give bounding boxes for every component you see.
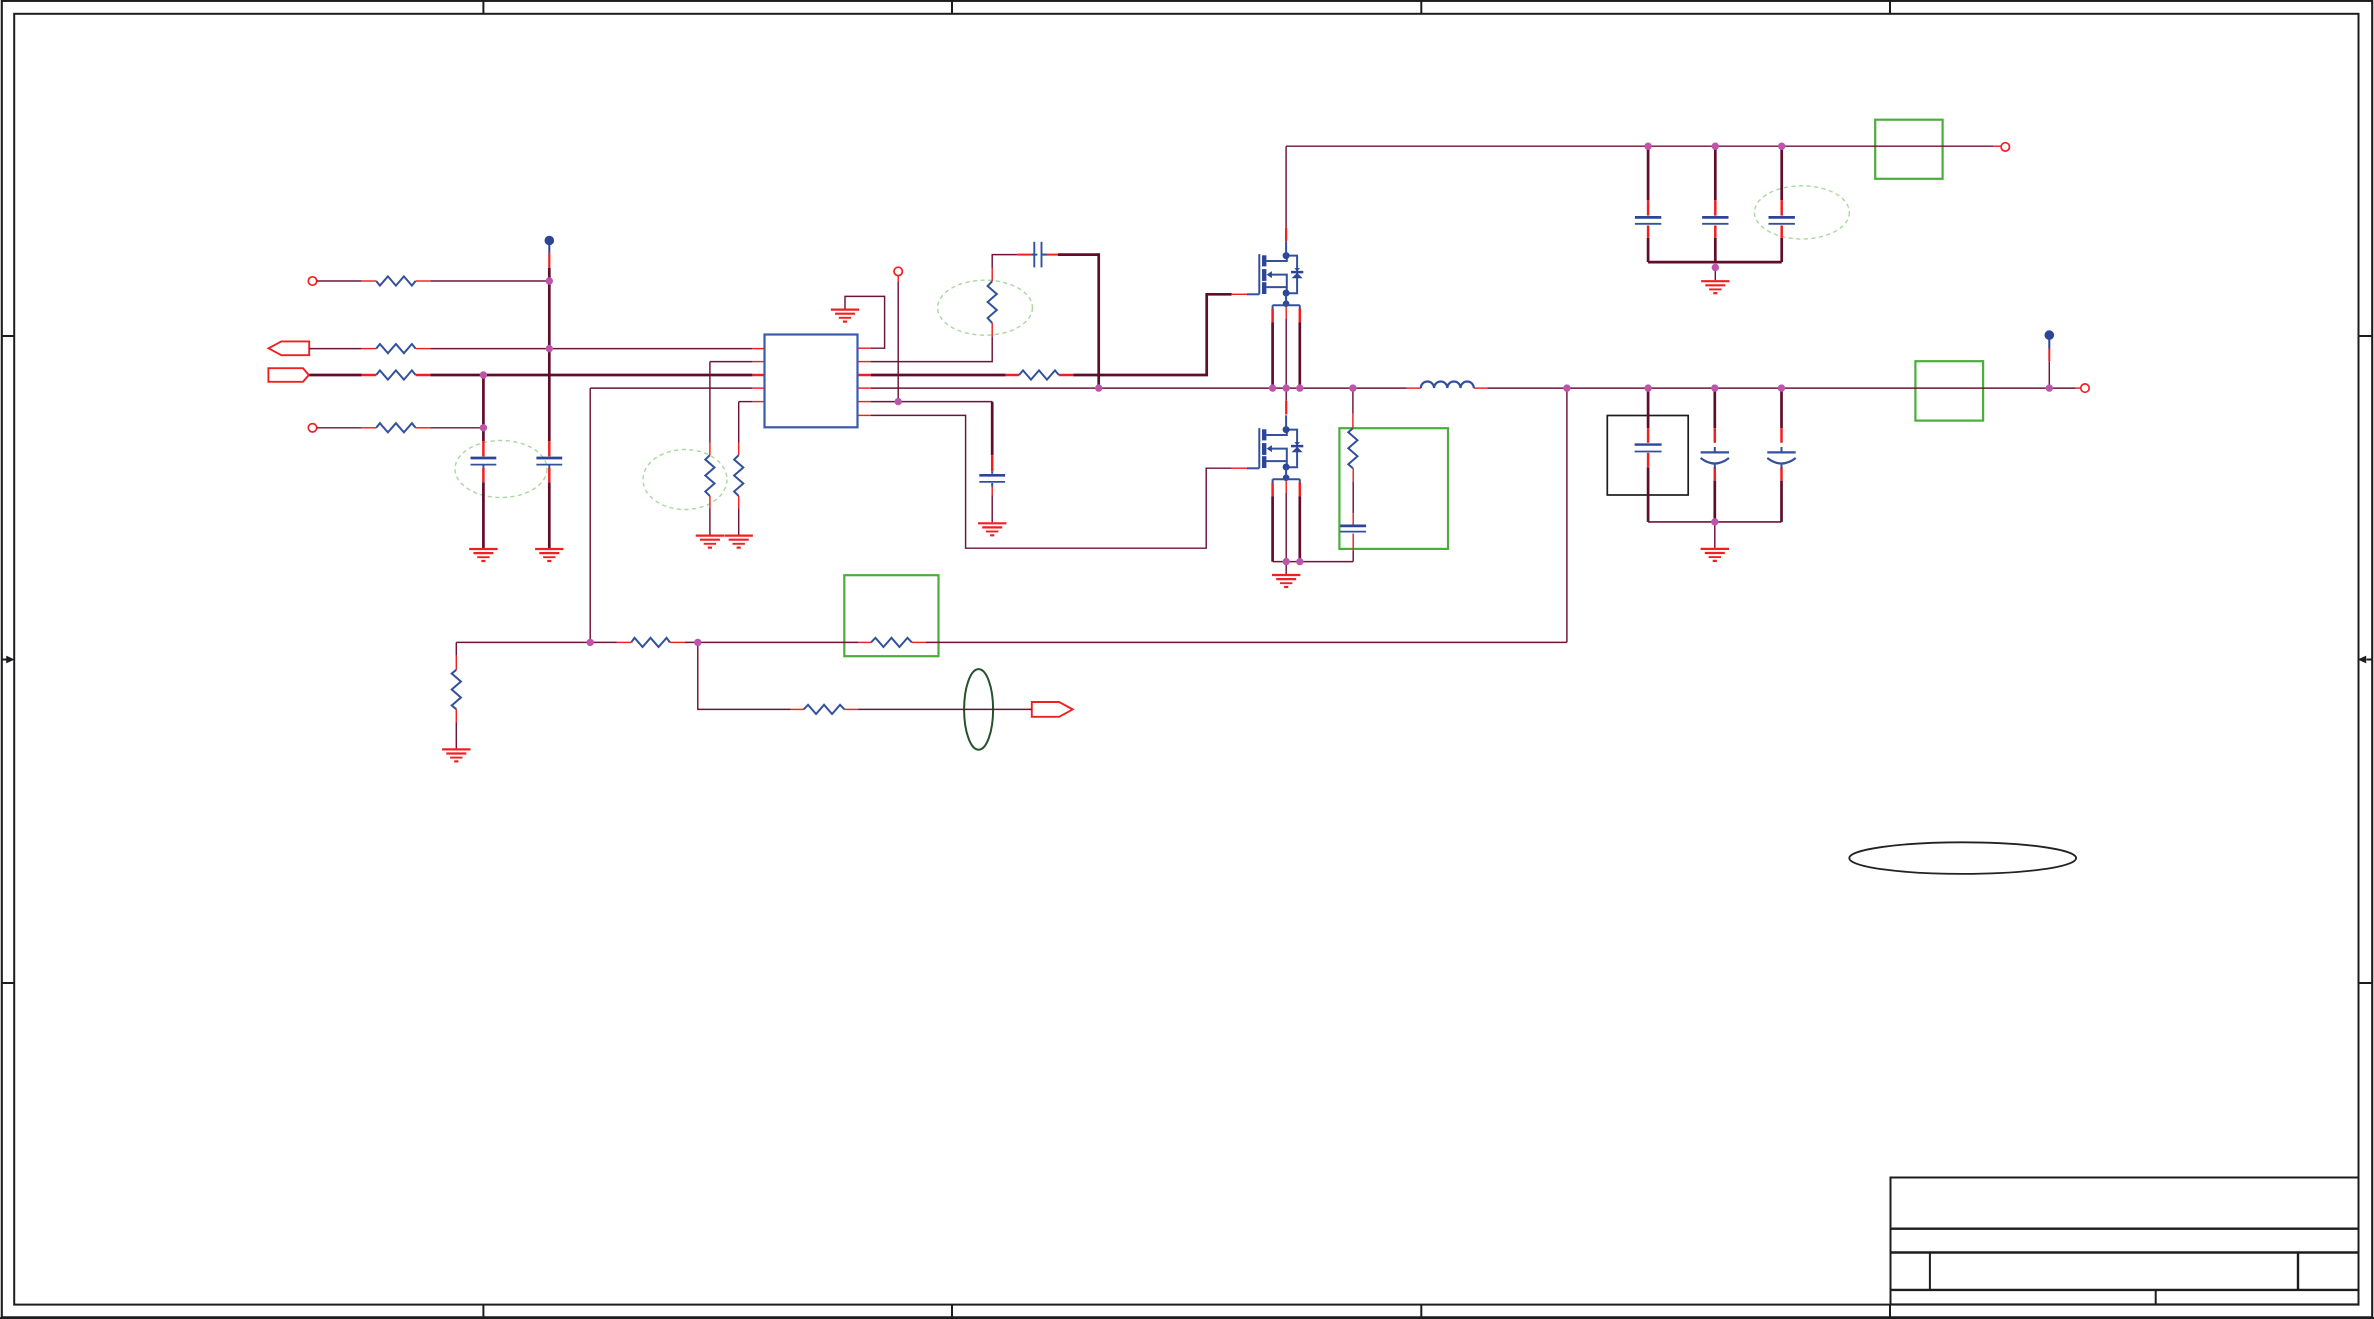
junction VOUT C10: [1711, 384, 1718, 391]
pin stub C2 top: [548, 441, 551, 456]
inductor L1: [1421, 381, 1474, 388]
wire Q2 source leg left: [1271, 497, 1274, 562]
wire U1 pin5 to C4: [871, 401, 992, 403]
pin stub Q2 gate: [1232, 467, 1247, 469]
wire R6 bottom lead: [738, 508, 740, 534]
zone tick right 2: [2359, 982, 2373, 984]
wire C2 lower lead: [548, 482, 551, 548]
zone tick left 1: [2, 335, 14, 337]
stub VOUT port: [2076, 387, 2081, 389]
junction VIN C7: [1712, 143, 1719, 150]
resistor R12 gate: [1019, 370, 1059, 379]
capacitor C6: [1635, 216, 1661, 219]
pin stub U1 R3: [858, 374, 872, 377]
pin stub Q2 drain: [1285, 401, 1287, 415]
ground C4: [978, 522, 1006, 524]
junction SW b: [1283, 384, 1290, 391]
pin stub R4 left: [362, 427, 376, 429]
junction feedback a: [587, 639, 594, 646]
pin stub C6 top: [1647, 200, 1650, 216]
pin stub snubber R top: [1352, 414, 1354, 429]
wire input cap ground rail: [1648, 261, 1782, 264]
pin stub comp R top: [991, 268, 993, 281]
wire SW rail left: [1099, 387, 1407, 389]
wire row3 R3 to U1 pin3: [430, 374, 752, 377]
wire snubber bottom lead: [1352, 551, 1354, 562]
ground U1 top: [831, 309, 859, 311]
wire bootstrap vertical: [1097, 253, 1100, 388]
wire U1 pin1 ground loop: [845, 296, 885, 348]
pin stub C8 top: [1780, 200, 1783, 216]
pin stub C7 top: [1714, 200, 1717, 216]
capacitor C3 bootstrap: [1033, 242, 1035, 268]
pin stub Q2 src left: [1271, 483, 1274, 497]
pin stub C11 top: [1780, 428, 1783, 443]
title block line 3: [1891, 1289, 2359, 1291]
wire C9 top lead: [1647, 388, 1650, 428]
pin stub U1 R5: [858, 401, 872, 403]
pin stub R10 left: [791, 708, 804, 710]
pin stub R2 left: [362, 348, 376, 350]
junction enable pin5: [895, 398, 902, 405]
resistor R10: [804, 705, 845, 714]
wire R10 to port: [858, 708, 1032, 710]
pin stub C1 top: [482, 441, 485, 456]
junction trunk row1: [546, 277, 553, 284]
wire R6 to U1 pin5: [739, 401, 753, 403]
capacitor C9: [1635, 443, 1662, 445]
stub VIN port: [1993, 145, 2001, 147]
wire Q1 source leg right: [1298, 323, 1301, 389]
wire C11 bottom lead: [1780, 481, 1783, 522]
resistor R8 feedback: [871, 638, 912, 647]
wire U1 pin3 to gate R: [871, 374, 1006, 377]
transistor Q2: [1258, 428, 1260, 468]
pin stub R4 right: [416, 427, 431, 429]
power flag VOUT: [2045, 330, 2055, 340]
wire R9 bottom lead: [455, 722, 457, 748]
junction bootstrap SW: [1095, 384, 1102, 391]
highlight ellipse pulldown resistors: [643, 450, 727, 510]
resistor R1: [376, 276, 415, 285]
ground power stage: [1272, 574, 1300, 576]
ground R5: [696, 534, 724, 536]
wire C6 bottom lead: [1647, 238, 1650, 262]
capacitor C2: [536, 457, 562, 460]
pin stub R3 right: [416, 374, 431, 377]
pin stub C4 bottom: [991, 487, 993, 496]
wire snubber mid lead: [1352, 482, 1354, 513]
junction VIN C6: [1644, 143, 1651, 150]
junction SW snubber: [1349, 384, 1356, 391]
capacitor C10 polarized: [1701, 451, 1729, 453]
highlight box snubber network: [1339, 428, 1448, 549]
pin stub Q1 src left: [1271, 309, 1274, 323]
wire row2 port to R2: [309, 348, 362, 350]
pin stub R10 right: [845, 708, 859, 710]
wire output cap ground rail: [1648, 521, 1781, 523]
wire C4 bottom lead: [991, 496, 993, 523]
wire sense drop vertical: [1566, 388, 1568, 642]
capacitor C5 snubber: [1340, 525, 1366, 528]
pin stub U1 R1: [858, 347, 872, 349]
pin stub C8 bottom: [1780, 226, 1783, 238]
zone tick top 1: [482, 1, 484, 14]
pin stub Q1 drain: [1285, 228, 1287, 242]
pin stub Q1 gate: [1232, 293, 1247, 295]
wire row4 R4 to node: [430, 427, 483, 429]
pin stub R5 top: [709, 443, 711, 455]
wire snubber top lead: [1352, 388, 1354, 414]
resistor R5: [705, 455, 714, 496]
transistor Q1: [1258, 254, 1260, 294]
wire U1 pin2 to comp R: [871, 336, 992, 361]
port arrow left row2: [269, 341, 310, 355]
pin stub C9 top: [1647, 428, 1650, 443]
resistor R3: [376, 370, 415, 379]
wire row1 R1 to trunk: [430, 280, 549, 282]
wire feedback main: [456, 641, 616, 643]
wire feedback R8 to sense: [926, 641, 1567, 643]
IC U1 converter: [765, 335, 858, 428]
pin stub enable port: [897, 276, 899, 282]
zone tick bottom 4: [1889, 1305, 1891, 1318]
port P5 circle VOUT: [2081, 384, 2089, 392]
wire C11 top lead: [1780, 388, 1783, 428]
pin stub R1 right: [416, 280, 431, 282]
wire R5 top lead: [709, 362, 711, 443]
highlight ellipse sense node: [964, 669, 993, 750]
wire C1 lower lead: [482, 482, 485, 548]
pin stub L1 right: [1474, 387, 1488, 389]
wire row2 R2 to U1 pin1: [430, 348, 752, 350]
zone tick top 3: [1420, 1, 1422, 14]
pin stub U1 R4: [858, 387, 872, 389]
port P2 circle row4: [308, 424, 316, 432]
resistor R2: [376, 344, 415, 353]
pin stub C9 bottom: [1647, 453, 1650, 468]
title block outline: [1891, 1178, 2359, 1305]
junction row3 node: [480, 371, 487, 378]
resistor R13 snubber: [1348, 428, 1357, 468]
pin stub R8 left: [859, 641, 871, 643]
wire C3 to bootstrap corner: [1058, 253, 1099, 256]
port P1 circle row1: [308, 277, 316, 285]
pin stub C6 bottom: [1647, 226, 1650, 238]
wire Q1 source leg left: [1271, 323, 1274, 389]
wire Q2 ground stem: [1285, 562, 1287, 574]
power flag VIN: [545, 236, 555, 246]
pin stub R6 top: [738, 443, 740, 455]
pin stub C1 bottom: [482, 468, 485, 482]
wire R5 to U1 pin2: [710, 361, 753, 363]
pin stub C4 top: [991, 455, 994, 471]
pin stub snubber R bottom: [1352, 468, 1354, 481]
pin stub R7 left: [617, 641, 632, 643]
wire C7 top lead: [1714, 146, 1717, 200]
wire row4 port to R4: [317, 427, 362, 429]
pin stub C10 top: [1714, 428, 1717, 443]
zone tick bottom 1: [482, 1305, 484, 1318]
junction input gnd: [1712, 264, 1719, 271]
port arrow feedback out: [1032, 702, 1073, 717]
wire enable port vertical: [897, 282, 899, 402]
wire Q1 source mid: [1285, 319, 1287, 388]
wire C8 bottom lead: [1780, 238, 1783, 262]
wire comp R to C3: [992, 255, 1017, 268]
resistor R4: [376, 423, 415, 432]
zone tick top 2: [951, 1, 953, 14]
output cap black box: [1607, 416, 1688, 496]
pin stub U1 L1: [752, 348, 764, 350]
pin stub R8 right: [912, 641, 926, 643]
pin stub Q1 src mid: [1285, 307, 1287, 320]
junction pwr gnd a: [1283, 558, 1290, 565]
wire feedback left drop: [455, 642, 457, 655]
junction VOUT C9: [1644, 384, 1651, 391]
zone tick bottom 2: [951, 1305, 953, 1318]
capacitor C7: [1702, 216, 1728, 219]
pin stub C11 bottom: [1780, 467, 1783, 481]
ground C1: [469, 548, 497, 550]
wire C4 top lead: [991, 402, 994, 456]
highlight ellipse input cap C8: [1754, 186, 1849, 239]
title block divider b: [2297, 1253, 2299, 1290]
pin stub snubber C bottom: [1352, 534, 1354, 551]
junction SW c: [1296, 384, 1303, 391]
wire input ground stem: [1714, 268, 1716, 281]
highlight ellipse comp resistor: [938, 280, 1033, 335]
highlight box feedback resistor R8: [844, 575, 938, 656]
wire feedback R7 to R8: [685, 641, 859, 643]
resistor R7: [631, 638, 670, 647]
wire U1 pin4 left: [590, 387, 752, 389]
junction row4 node: [480, 424, 487, 431]
highlight ellipse input caps: [455, 441, 547, 498]
pin stub C2 bottom: [548, 468, 551, 482]
wire U1 pin4 to SW: [871, 387, 1099, 389]
highlight box VIN connector: [1875, 120, 1942, 179]
highlight box VOUT connector: [1915, 361, 1983, 420]
pin stub comp R bottom: [991, 323, 993, 336]
pin stub R3 left: [362, 374, 376, 377]
sheet bottom edge bar: [0, 1317, 2374, 1319]
junction trunk row2: [546, 345, 553, 352]
port P4 circle VIN: [2001, 143, 2009, 151]
pin stub U1 L2: [752, 361, 764, 363]
junction VOUT flag: [2046, 384, 2053, 391]
wire C9 bottom lead: [1647, 467, 1650, 522]
wire C7 bottom lead: [1714, 238, 1717, 262]
pin stub snubber C top: [1352, 513, 1354, 525]
zone tick top 4: [1889, 1, 1891, 14]
wire feedback drop vertical: [589, 388, 591, 642]
wire U1 pin6 to Q2 gate: [871, 415, 1232, 548]
pin stub gate R left: [1006, 374, 1019, 377]
note ellipse: [1849, 842, 2076, 874]
title block line 1: [1891, 1227, 2359, 1229]
pin stub C10 bottom: [1714, 467, 1717, 481]
title block line 2: [1891, 1251, 2359, 1253]
wire row3 port to R3: [309, 374, 361, 377]
pin stub R6 bottom: [738, 496, 740, 508]
centre arrow left edge: [2, 659, 8, 661]
port P3 circle enable: [894, 267, 902, 275]
wire C8 top lead: [1780, 146, 1783, 200]
wire Q1 drain vertical: [1285, 146, 1287, 228]
capacitor C1: [471, 457, 497, 460]
title block divider c: [2155, 1290, 2157, 1305]
pin stub R9 bottom: [455, 709, 457, 722]
wire row1 port to R1: [317, 280, 362, 282]
junction pwr gnd b: [1296, 558, 1303, 565]
junction output gnd: [1711, 518, 1718, 525]
zone tick right 1: [2359, 335, 2373, 337]
port arrow right row3: [268, 368, 308, 382]
wire VOUT rail: [1487, 387, 2075, 389]
wire VIN rail: [1286, 145, 1993, 147]
pin stub Q1 src right: [1299, 309, 1302, 323]
wire R5 bottom lead: [709, 508, 711, 534]
pin stub C3 left: [1017, 254, 1033, 256]
junction VOUT C11: [1778, 384, 1785, 391]
ground output caps: [1701, 548, 1729, 550]
pin stub U1 L3: [752, 374, 764, 377]
pin stub Q2 src mid: [1285, 481, 1287, 494]
pin stub Q2 src right: [1299, 483, 1302, 497]
junction SW a: [1269, 384, 1276, 391]
pin stub R5 bottom: [709, 496, 711, 508]
wire Q2 source mid: [1285, 493, 1287, 562]
wire C10 bottom lead: [1713, 481, 1716, 522]
ground R9: [442, 748, 470, 750]
pin stub U1 L4: [752, 387, 764, 389]
wire Q2 drain: [1285, 388, 1287, 401]
pin stub L1 left: [1407, 387, 1421, 389]
pin stub R9 top: [455, 656, 457, 670]
ground C2: [535, 548, 563, 550]
junction feedback b: [694, 639, 701, 646]
pin stub U1 R6: [858, 414, 872, 416]
wire output ground stem: [1714, 522, 1716, 548]
pin stub U1 L5: [752, 401, 764, 403]
resistor R9: [452, 670, 461, 709]
capacitor C4: [979, 474, 1005, 477]
pin stub R2 right: [416, 348, 431, 350]
wire node to C1 vertical: [482, 375, 485, 441]
resistor R11 comp: [988, 281, 997, 323]
wire R6 top lead: [738, 402, 740, 443]
pin stub C3 right: [1043, 254, 1058, 256]
pin stub gate R right: [1059, 374, 1073, 377]
junction VIN C8: [1778, 143, 1785, 150]
capacitor C8: [1769, 216, 1795, 219]
title block divider a: [1929, 1253, 1931, 1290]
resistor R6: [734, 455, 743, 496]
wire power ground rail: [1273, 561, 1354, 563]
capacitor C11 polarized: [1767, 451, 1795, 453]
wire Q2 source leg right: [1298, 497, 1301, 562]
wire C10 top lead: [1713, 388, 1716, 428]
pin stub R1 left: [362, 280, 376, 282]
zone tick bottom 3: [1420, 1305, 1422, 1318]
wire feedback lower branch: [698, 642, 791, 709]
pin stub U1 R2: [858, 361, 872, 363]
wire C6 top lead: [1647, 146, 1650, 200]
zone tick left 2: [2, 982, 14, 984]
centre arrow right edge: [2367, 659, 2373, 661]
ground input caps: [1701, 280, 1729, 282]
wire gate R to Q1 gate: [1073, 294, 1231, 375]
ground R6: [725, 534, 753, 536]
junction VOUT sense: [1563, 384, 1570, 391]
pin stub C7 bottom: [1714, 226, 1717, 238]
pin stub R7 right: [670, 641, 685, 643]
wire VIN trunk vertical: [548, 268, 551, 441]
